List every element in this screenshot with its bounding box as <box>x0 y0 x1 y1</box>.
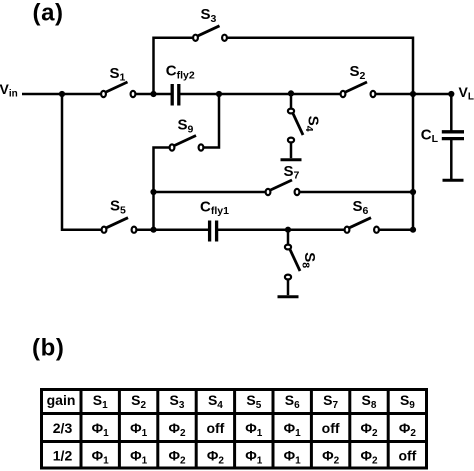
svg-text:Φ2: Φ2 <box>360 420 378 439</box>
ground below CL <box>443 179 464 182</box>
svg-text:Φ1: Φ1 <box>245 420 262 439</box>
svg-text:Φ2: Φ2 <box>207 448 225 467</box>
switch S4 (vertical) <box>288 109 322 143</box>
node S6 right <box>410 227 416 233</box>
svg-text:S5: S5 <box>246 392 261 411</box>
svg-text:Φ1: Φ1 <box>92 420 110 439</box>
node S8 tap <box>285 227 291 233</box>
svg-text:Φ1: Φ1 <box>284 448 302 467</box>
wire CL bottom plate to ground <box>450 139 453 179</box>
wire S8 to ground <box>287 280 290 296</box>
svg-text:Cfly2: Cfly2 <box>166 63 195 82</box>
svg-text:Φ1: Φ1 <box>92 448 110 467</box>
svg-text:S6: S6 <box>285 392 300 411</box>
wire top rail S3 to right vertical <box>227 38 414 94</box>
svg-text:Φ2: Φ2 <box>360 448 378 467</box>
svg-text:(a): (a) <box>33 0 64 27</box>
svg-text:S7: S7 <box>323 392 338 411</box>
svg-text:S3: S3 <box>170 392 185 411</box>
capacitor CL <box>442 132 464 139</box>
node top-rail tap <box>150 91 156 97</box>
table header row <box>47 392 416 411</box>
svg-text:off: off <box>206 420 224 436</box>
table row gain 1/2 <box>53 448 417 467</box>
svg-text:VL: VL <box>459 84 474 103</box>
switch S5 <box>102 198 137 233</box>
node S4 tap <box>288 90 294 96</box>
svg-text:S1: S1 <box>93 392 108 411</box>
svg-text:S9: S9 <box>400 392 415 411</box>
svg-text:off: off <box>322 420 340 436</box>
wire right vertical rail <box>412 94 415 230</box>
wire S4 to ground <box>290 142 293 158</box>
svg-text:Φ2: Φ2 <box>322 448 340 467</box>
svg-text:S6: S6 <box>353 198 369 217</box>
wire VL node down to CL <box>450 94 453 132</box>
svg-text:S2: S2 <box>131 392 146 411</box>
svg-text:S1: S1 <box>110 65 126 84</box>
node S7 left <box>150 189 156 195</box>
svg-text:2/3: 2/3 <box>53 420 73 436</box>
switch S9 <box>170 117 204 151</box>
svg-text:S8: S8 <box>300 252 319 268</box>
wire S5 to Cfly1 left plate <box>137 228 209 231</box>
svg-text:Φ1: Φ1 <box>245 448 262 467</box>
svg-text:S8: S8 <box>362 392 377 411</box>
svg-text:Cfly1: Cfly1 <box>200 198 229 217</box>
table row gain 2/3 <box>53 420 417 439</box>
wire S6 to right rail <box>379 228 414 231</box>
wire Cfly2 right plate to S2 <box>180 93 341 96</box>
wire left branch down to S5 <box>62 94 102 230</box>
svg-text:S3: S3 <box>201 6 217 25</box>
svg-text:Φ2: Φ2 <box>168 420 186 439</box>
svg-text:Vin: Vin <box>0 81 18 100</box>
svg-text:Φ1: Φ1 <box>130 448 148 467</box>
wire S7 left segment <box>154 191 267 194</box>
svg-text:off: off <box>398 448 416 464</box>
capacitor Cfly1 <box>210 221 217 242</box>
switch S8 (vertical) <box>285 245 318 280</box>
capacitor Cfly2 <box>172 84 179 106</box>
svg-text:gain: gain <box>47 392 76 408</box>
switch S6 <box>345 198 379 233</box>
wire S9 left leg down to Cfly1 node <box>154 148 171 230</box>
svg-text:S9: S9 <box>178 117 194 136</box>
wire S2 to VL node <box>376 93 452 96</box>
table outer border <box>42 390 427 469</box>
svg-text:S2: S2 <box>350 63 366 82</box>
switch S1 <box>101 65 135 97</box>
wire S7 right segment <box>299 191 413 194</box>
node S7 right <box>410 189 416 195</box>
table row dividers <box>42 414 427 442</box>
ground below S8 <box>278 295 299 298</box>
svg-text:Φ1: Φ1 <box>130 420 148 439</box>
wire S8 branch down <box>287 230 290 245</box>
switch S2 <box>341 63 376 97</box>
wire Cfly1 right plate to S6 <box>218 228 345 231</box>
svg-text:S4: S4 <box>208 392 223 411</box>
node Cfly1 left <box>150 227 156 233</box>
wire S1 to Cfly2 left plate <box>135 93 171 96</box>
svg-text:Φ1: Φ1 <box>284 420 302 439</box>
ground below S4 <box>281 158 302 161</box>
svg-text:(b): (b) <box>32 335 64 362</box>
node Vin branch junction <box>59 91 65 97</box>
switch S3 <box>193 6 227 41</box>
node right rail main <box>410 91 416 97</box>
svg-text:S4: S4 <box>303 116 322 132</box>
svg-text:CL: CL <box>421 127 439 146</box>
svg-text:S7: S7 <box>284 163 300 182</box>
wire Vin input to S1 <box>22 93 101 96</box>
svg-text:Φ2: Φ2 <box>399 420 417 439</box>
svg-text:S5: S5 <box>110 198 126 217</box>
wire S4 branch from main rail <box>290 94 293 109</box>
table column dividers <box>81 390 388 469</box>
wire top-rail left leg (node to S3) <box>154 38 194 94</box>
wire S9 right leg up to Cfly2 node <box>203 94 219 148</box>
switch S7 <box>266 163 300 195</box>
svg-text:1/2: 1/2 <box>53 448 73 464</box>
svg-text:Φ2: Φ2 <box>168 448 186 467</box>
node VL <box>448 91 454 97</box>
node Cfly2 right / S9 tap <box>216 91 222 97</box>
table (b): gain configuration <box>42 390 427 469</box>
